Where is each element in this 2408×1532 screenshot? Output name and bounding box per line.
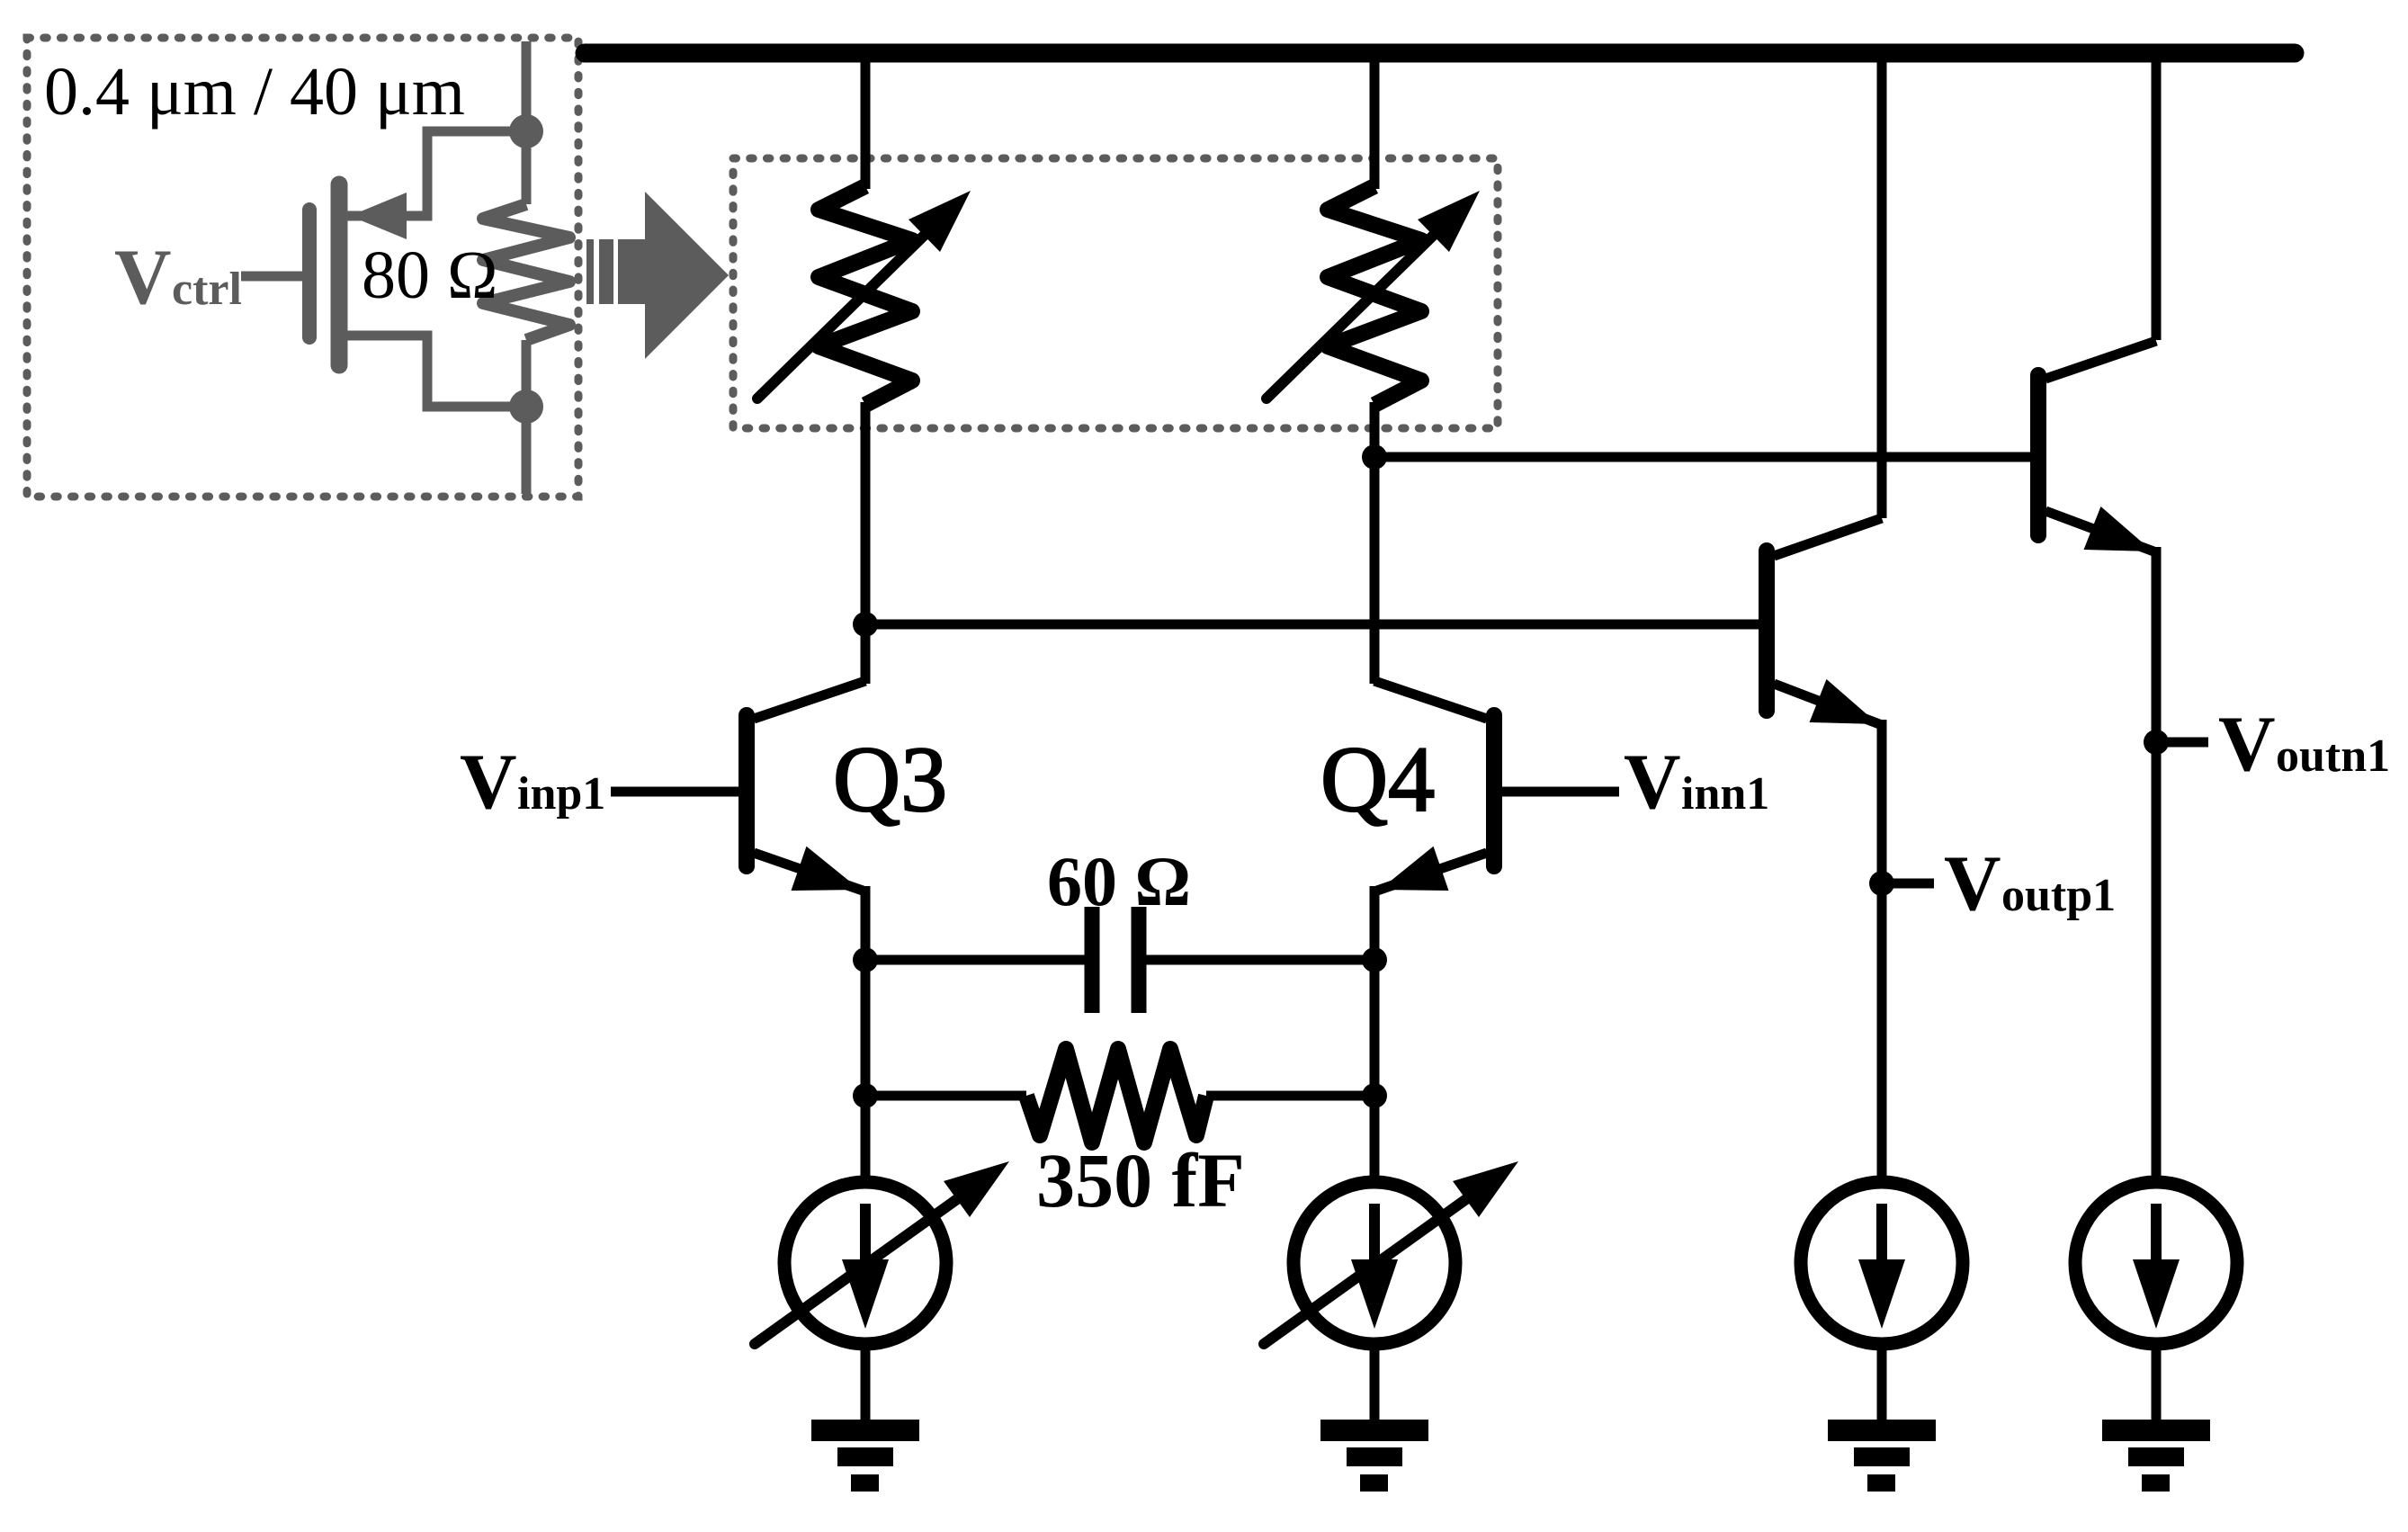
I3 arrow — [1876, 1204, 1887, 1261]
wire res left lead — [865, 1091, 1026, 1101]
Q6 collector diagonal — [2045, 341, 2156, 379]
current source I1 circle — [784, 1182, 946, 1344]
wire rail to R1 — [861, 52, 871, 189]
transistor M1 channel bar — [331, 184, 348, 365]
Q5 emitter arrow — [1810, 679, 1879, 724]
variable resistor R1 — [819, 186, 912, 405]
node res right — [1362, 1083, 1387, 1108]
svg-text:ctrl: ctrl — [172, 264, 242, 315]
wire rail to R2 — [1370, 52, 1380, 189]
svg-text:inp1: inp1 — [517, 768, 605, 820]
node drain junction — [509, 114, 543, 148]
wire Q5 emitter column — [1877, 720, 1887, 1181]
node source junction — [509, 390, 543, 424]
node R2 output — [1362, 444, 1387, 470]
I1 variable arrow — [755, 1199, 957, 1344]
node cap left — [853, 947, 878, 972]
node Voutp1 — [1869, 871, 1894, 896]
node cap right — [1362, 947, 1387, 972]
resistor 80ohm — [483, 204, 569, 340]
dashed inset box (Vctrl tuning cell) — [27, 38, 578, 497]
wire rail to Q6 collector — [2152, 52, 2162, 340]
svg-text:Q3: Q3 — [833, 728, 947, 831]
wire 80ohm resistor top lead — [522, 41, 532, 204]
Q3 collector diagonal — [754, 681, 865, 719]
wire Q4 emitter column — [1370, 886, 1380, 1181]
wire cap left lead — [865, 955, 1085, 965]
svg-text:V: V — [460, 739, 517, 826]
svg-text:V: V — [2218, 701, 2276, 788]
I2 variable arrow — [1264, 1199, 1466, 1344]
capacitor C1 right plate — [1132, 907, 1147, 1013]
svg-text:outp1: outp1 — [2001, 870, 2116, 921]
svg-text:0.4 μm / 40 μm: 0.4 μm / 40 μm — [44, 54, 465, 130]
ground G3 — [1828, 1420, 1936, 1441]
Q3 emitter diagonal — [754, 853, 865, 891]
I1 arrow — [860, 1204, 871, 1261]
wire Q3 emitter column — [861, 886, 871, 1181]
capacitor C1 left plate — [1085, 907, 1100, 1013]
svg-text:V: V — [114, 234, 172, 321]
svg-text:80 Ω: 80 Ω — [362, 237, 497, 313]
block arrow (maps inset to variable resistors) — [586, 239, 594, 304]
wire I1 to ground — [861, 1345, 871, 1423]
wire Q6 emitter column — [2152, 547, 2162, 1181]
I2 arrow — [1369, 1204, 1380, 1261]
wire M1 source — [343, 336, 526, 407]
wire R2 bottom to Q4 collector — [1370, 402, 1380, 684]
wire R2 node to Q6 base — [1374, 452, 2031, 462]
node res left — [853, 1083, 878, 1108]
ground G2 — [1320, 1420, 1428, 1441]
transistor M1 gate bar — [302, 210, 317, 337]
Q3 emitter arrow — [792, 847, 861, 891]
Q6 emitter diagonal — [2045, 511, 2156, 552]
Q6 emitter arrow — [2084, 506, 2153, 551]
svg-text:60 Ω: 60 Ω — [1047, 842, 1191, 920]
ground G1 — [811, 1420, 919, 1441]
wire Q3 base (Vinp1) — [611, 787, 740, 797]
wire I2 to ground — [1370, 1345, 1380, 1423]
Q5 collector diagonal — [1774, 518, 1882, 556]
power rail — [585, 44, 2295, 63]
M1 drain arrow — [350, 193, 407, 239]
svg-text:outn1: outn1 — [2276, 730, 2390, 782]
transistor Q6 bar — [2030, 375, 2046, 535]
wire R1 bottom to Q3 collector — [861, 402, 871, 684]
wire I4 to ground — [2152, 1345, 2162, 1423]
svg-text:350 fF: 350 fF — [1036, 1137, 1245, 1223]
R1 variable arrow — [757, 236, 924, 399]
current source I2 circle — [1294, 1182, 1455, 1344]
wire I3 to ground — [1877, 1345, 1887, 1423]
wire Voutp1 tick — [1882, 879, 1934, 889]
wire Q3 collector node to Q5 base — [865, 620, 1759, 630]
svg-text:V: V — [1944, 840, 2001, 927]
variable resistor R2 — [1328, 186, 1421, 405]
transistor Q3 bar — [739, 715, 755, 866]
Q4 collector diagonal — [1374, 681, 1487, 719]
current source I3 circle — [1801, 1182, 1963, 1344]
Q5 emitter diagonal — [1774, 684, 1882, 725]
transistor Q5 bar — [1759, 551, 1775, 711]
dashed box (variable load resistors) — [733, 158, 1498, 428]
wire Q4 base (Vinn1) — [1501, 787, 1619, 797]
wire res right lead — [1206, 1091, 1374, 1101]
ground G4 — [2102, 1420, 2210, 1441]
transistor Q4 bar — [1486, 715, 1502, 866]
Q4 emitter diagonal — [1374, 853, 1487, 891]
svg-text:V: V — [1624, 739, 1681, 826]
node Voutn1 — [2144, 730, 2169, 755]
Q4 emitter arrow — [1380, 847, 1449, 891]
I4 arrow — [2151, 1204, 2162, 1261]
wire rail to Q5 collector — [1877, 52, 1887, 518]
svg-text:inn1: inn1 — [1681, 768, 1769, 820]
svg-text:Q4: Q4 — [1320, 728, 1435, 831]
wire cap right lead — [1146, 955, 1374, 965]
resistor R3 (emitter degeneration) — [1026, 1049, 1206, 1142]
wire Vctrl gate lead — [241, 272, 302, 282]
node Q3 collector — [853, 612, 878, 637]
wire Voutn1 tick — [2156, 738, 2208, 748]
wire M1 drain — [343, 131, 526, 216]
R2 variable arrow — [1267, 236, 1433, 399]
current source I4 circle — [2075, 1182, 2237, 1344]
wire 80ohm resistor bottom lead — [522, 340, 532, 494]
